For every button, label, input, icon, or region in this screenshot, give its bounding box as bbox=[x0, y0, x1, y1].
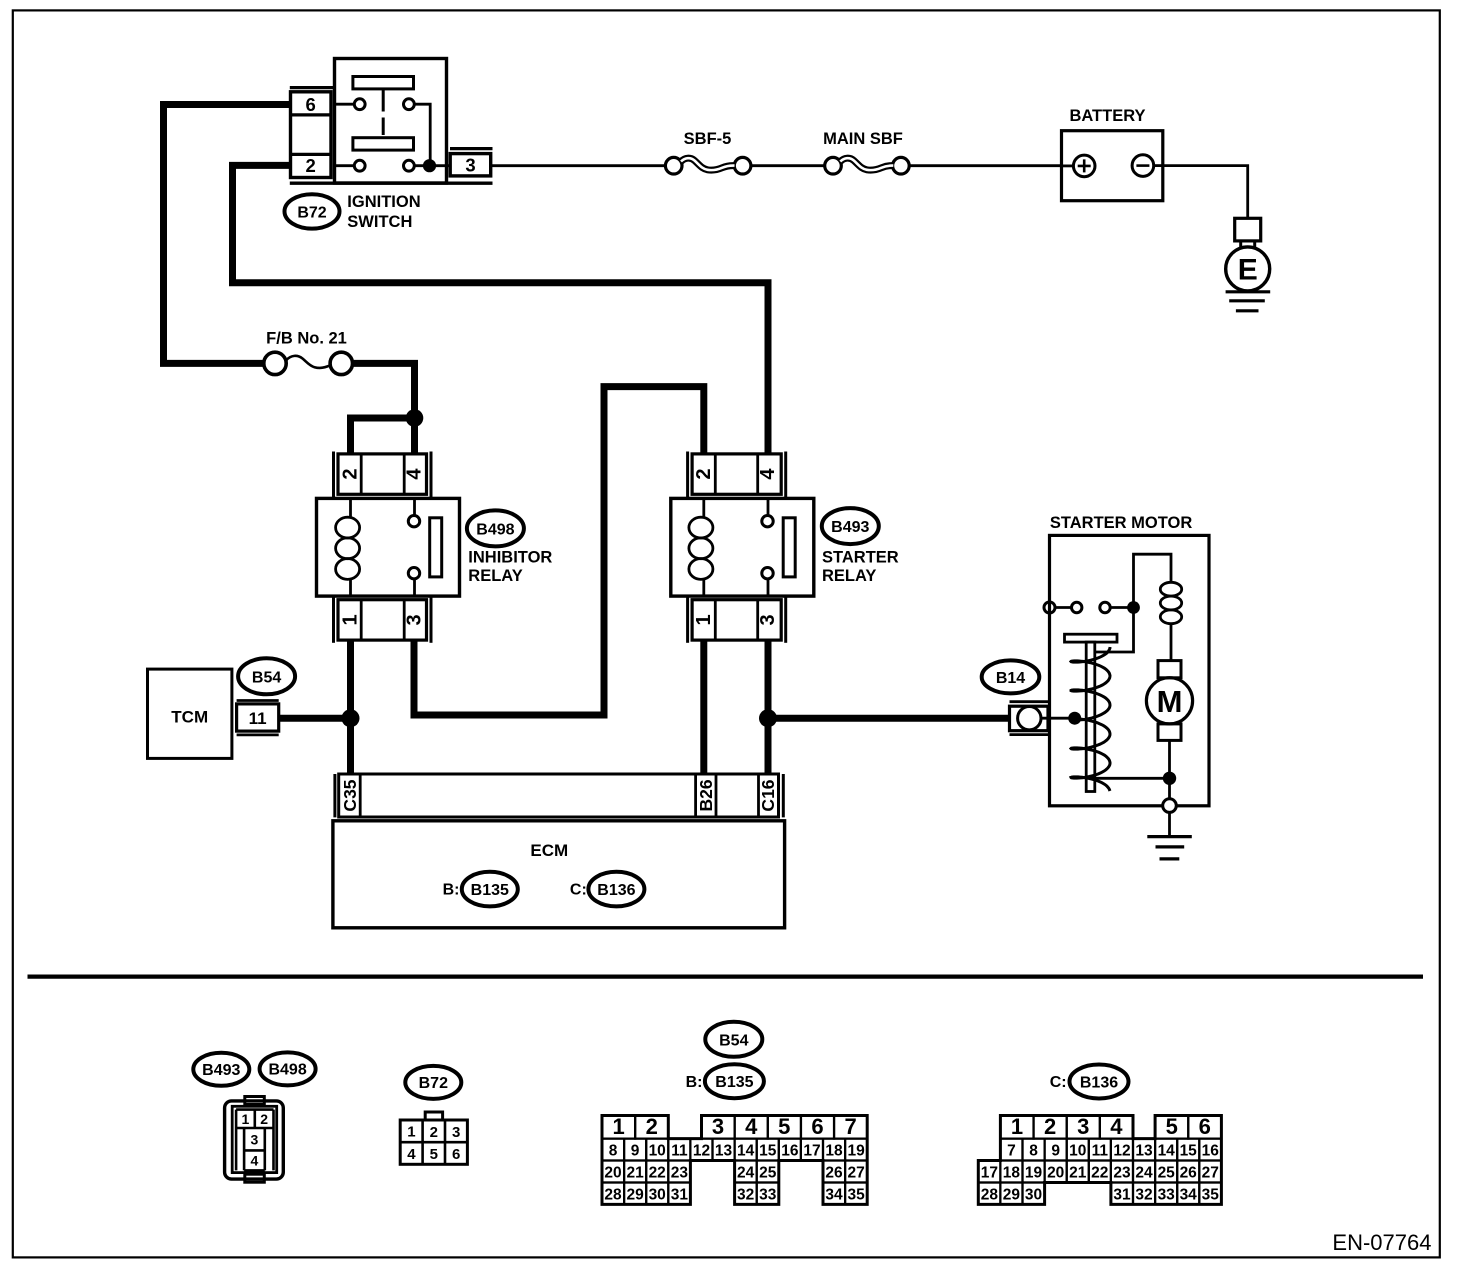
svg-text:STARTER MOTOR: STARTER MOTOR bbox=[1050, 514, 1192, 532]
svg-text:6: 6 bbox=[811, 1114, 823, 1139]
svg-text:29: 29 bbox=[626, 1187, 644, 1204]
svg-text:24: 24 bbox=[1135, 1165, 1153, 1182]
svg-text:23: 23 bbox=[671, 1165, 689, 1182]
svg-text:C:: C: bbox=[1050, 1074, 1067, 1091]
svg-text:B:: B: bbox=[443, 882, 460, 899]
svg-text:20: 20 bbox=[1047, 1165, 1064, 1182]
svg-text:9: 9 bbox=[631, 1143, 640, 1160]
svg-text:10: 10 bbox=[649, 1143, 666, 1160]
svg-text:8: 8 bbox=[1029, 1143, 1038, 1160]
solenoid plunger T-bar bbox=[1065, 634, 1118, 642]
wire: inhibitor relay pin 1 to junction / TCM / ECM C35 (thick) bbox=[279, 640, 351, 774]
svg-text:C:: C: bbox=[570, 882, 587, 899]
svg-text:2: 2 bbox=[340, 469, 362, 480]
svg-text:26: 26 bbox=[1180, 1165, 1198, 1182]
svg-text:25: 25 bbox=[1158, 1165, 1176, 1182]
svg-text:34: 34 bbox=[1180, 1187, 1198, 1204]
connector pin grid B135 cells bbox=[602, 1116, 867, 1205]
svg-text:15: 15 bbox=[759, 1143, 777, 1160]
svg-text:4: 4 bbox=[404, 468, 426, 480]
svg-text:13: 13 bbox=[1135, 1143, 1153, 1160]
svg-text:6: 6 bbox=[1199, 1114, 1211, 1139]
svg-text:28: 28 bbox=[981, 1187, 999, 1204]
svg-text:4: 4 bbox=[407, 1146, 416, 1163]
fusible link SBF-5 bbox=[665, 157, 750, 174]
svg-text:4: 4 bbox=[251, 1153, 259, 1169]
relay B498 bottom connector strip with pins 1,3 bbox=[334, 597, 432, 643]
ECM box bbox=[333, 821, 785, 928]
connector pin grid B136 pin numbers bbox=[981, 1114, 1220, 1203]
ignition switch output junction dot bbox=[423, 159, 436, 172]
svg-text:IGNITION: IGNITION bbox=[347, 193, 420, 211]
svg-text:7: 7 bbox=[844, 1114, 856, 1139]
svg-text:1: 1 bbox=[1011, 1114, 1023, 1139]
svg-text:EN-07764: EN-07764 bbox=[1332, 1230, 1431, 1255]
svg-text:ECM: ECM bbox=[530, 841, 568, 860]
svg-text:B493: B493 bbox=[202, 1062, 240, 1079]
svg-text:C16: C16 bbox=[758, 779, 778, 811]
svg-text:29: 29 bbox=[1003, 1187, 1021, 1204]
svg-text:3: 3 bbox=[452, 1124, 460, 1141]
starter motor contact junction dot bbox=[1127, 601, 1140, 614]
svg-text:E: E bbox=[1238, 254, 1258, 287]
svg-text:26: 26 bbox=[825, 1165, 843, 1182]
svg-text:9: 9 bbox=[1051, 1143, 1060, 1160]
svg-text:STARTER: STARTER bbox=[822, 549, 899, 567]
svg-text:B493: B493 bbox=[831, 519, 869, 536]
svg-text:SBF-5: SBF-5 bbox=[684, 130, 732, 148]
svg-text:11: 11 bbox=[1092, 1143, 1109, 1160]
TCM box bbox=[148, 669, 232, 758]
bottom section: label oval B72 bbox=[405, 1066, 461, 1099]
wire: inhibitor relay pin 3 to starter relay pin 2 (thick) bbox=[414, 387, 704, 715]
battery positive terminal bbox=[1062, 155, 1095, 177]
svg-text:22: 22 bbox=[1091, 1165, 1108, 1182]
svg-text:17: 17 bbox=[803, 1143, 820, 1160]
svg-text:3: 3 bbox=[465, 155, 475, 176]
wire: SBF-5 to MAIN SBF (thin) bbox=[751, 164, 825, 167]
svg-text:3: 3 bbox=[251, 1132, 259, 1148]
motor ground junction dot bbox=[1163, 772, 1176, 785]
svg-text:30: 30 bbox=[1025, 1187, 1042, 1204]
svg-text:4: 4 bbox=[1110, 1114, 1123, 1139]
junction dot at TCM branch bbox=[342, 709, 360, 727]
wire: field coil to motor (thin) bbox=[1170, 624, 1173, 661]
svg-text:F/B No. 21: F/B No. 21 bbox=[266, 329, 347, 347]
svg-text:RELAY: RELAY bbox=[822, 567, 876, 585]
svg-text:M: M bbox=[1157, 684, 1183, 719]
svg-text:1: 1 bbox=[242, 1111, 250, 1127]
wire: ignition switch pin 6 to F/B No.21 fuse (thick) bbox=[164, 105, 293, 364]
svg-text:16: 16 bbox=[781, 1143, 799, 1160]
svg-text:6: 6 bbox=[452, 1146, 460, 1163]
svg-text:2: 2 bbox=[260, 1111, 268, 1127]
svg-text:RELAY: RELAY bbox=[468, 567, 522, 585]
wire: motor to ground node (thin) bbox=[1091, 740, 1170, 798]
svg-text:18: 18 bbox=[825, 1143, 843, 1160]
svg-text:2: 2 bbox=[430, 1124, 438, 1141]
svg-text:B498: B498 bbox=[476, 521, 514, 538]
svg-text:20: 20 bbox=[604, 1165, 621, 1182]
relay B498 name label bbox=[468, 549, 552, 585]
starter motor box bbox=[1050, 535, 1210, 805]
svg-text:B135: B135 bbox=[715, 1074, 753, 1091]
ignition switch actuator dashed link bbox=[382, 89, 385, 135]
B14 connector box with brackets bbox=[1010, 702, 1049, 735]
bottom section: label oval B493 bbox=[193, 1053, 249, 1086]
svg-text:18: 18 bbox=[1003, 1165, 1021, 1182]
relay B493 starter top connector strip with pins 2,4 bbox=[688, 452, 786, 498]
svg-text:19: 19 bbox=[1025, 1165, 1043, 1182]
connector pin grid B136 cells bbox=[978, 1116, 1221, 1205]
svg-text:14: 14 bbox=[1158, 1143, 1176, 1160]
connector pin grid B135 outline bbox=[602, 1116, 867, 1205]
svg-text:15: 15 bbox=[1180, 1143, 1198, 1160]
ignition switch connector face B72 bbox=[400, 1112, 467, 1164]
svg-text:B54: B54 bbox=[252, 669, 281, 686]
junction dot at starter motor branch bbox=[759, 709, 777, 727]
label oval B54 bbox=[238, 658, 295, 694]
svg-text:24: 24 bbox=[737, 1165, 755, 1182]
svg-text:27: 27 bbox=[847, 1165, 864, 1182]
ignition switch contact terminals bbox=[335, 99, 451, 171]
fuse F/B No. 21 bbox=[264, 352, 353, 374]
svg-text:12: 12 bbox=[693, 1143, 710, 1160]
svg-text:B14: B14 bbox=[996, 670, 1025, 687]
ECM connector strip brackets bbox=[335, 774, 783, 817]
svg-text:32: 32 bbox=[737, 1187, 754, 1204]
svg-text:B:: B: bbox=[686, 1074, 703, 1091]
relay B493 switch contacts bbox=[762, 498, 795, 596]
relay B493 coil bbox=[689, 498, 713, 596]
label oval B72 bbox=[285, 194, 340, 228]
svg-text:16: 16 bbox=[1202, 1143, 1220, 1160]
svg-text:2: 2 bbox=[646, 1114, 658, 1139]
svg-text:14: 14 bbox=[737, 1143, 755, 1160]
svg-text:1: 1 bbox=[693, 614, 715, 625]
wire: contact to field coil (thin) bbox=[1134, 554, 1172, 607]
svg-text:31: 31 bbox=[671, 1187, 689, 1204]
svg-text:31: 31 bbox=[1113, 1187, 1131, 1204]
svg-text:MAIN SBF: MAIN SBF bbox=[823, 130, 903, 148]
label oval B14 bbox=[982, 660, 1040, 693]
svg-text:22: 22 bbox=[649, 1165, 666, 1182]
svg-text:11: 11 bbox=[249, 709, 267, 728]
svg-text:2: 2 bbox=[693, 469, 715, 480]
wire: battery negative to ground E (thin) bbox=[1163, 166, 1248, 219]
ignition switch connector box pins 6,2 bbox=[291, 92, 332, 178]
svg-text:21: 21 bbox=[1069, 1165, 1087, 1182]
motor M bbox=[1146, 678, 1192, 724]
solenoid return spring bbox=[1071, 647, 1110, 791]
svg-text:5: 5 bbox=[430, 1146, 438, 1163]
svg-text:1: 1 bbox=[340, 614, 362, 625]
svg-text:3: 3 bbox=[404, 614, 426, 625]
ignition switch bottom bracket line bbox=[290, 181, 493, 184]
relay B498 inhibitor top connector strip with pins 2,4 bbox=[334, 452, 432, 498]
svg-text:SWITCH: SWITCH bbox=[347, 213, 412, 231]
svg-text:32: 32 bbox=[1135, 1187, 1152, 1204]
svg-text:35: 35 bbox=[1202, 1187, 1220, 1204]
section divider line bbox=[28, 974, 1424, 978]
motor lower brush block bbox=[1158, 724, 1181, 741]
starter motor switch contacts bbox=[1044, 602, 1128, 613]
connector pin grid B136 outline bbox=[978, 1116, 1221, 1205]
wire: case terminal to ground (thin) bbox=[1168, 812, 1171, 835]
svg-text:21: 21 bbox=[626, 1165, 644, 1182]
svg-text:34: 34 bbox=[825, 1187, 843, 1204]
svg-text:25: 25 bbox=[759, 1165, 777, 1182]
svg-text:19: 19 bbox=[847, 1143, 865, 1160]
svg-text:B54: B54 bbox=[719, 1032, 748, 1049]
svg-text:BATTERY: BATTERY bbox=[1069, 107, 1145, 125]
wire: ignition switch pin 2 to starter relay pin 4 (thick) bbox=[233, 165, 769, 454]
svg-text:6: 6 bbox=[306, 94, 316, 115]
svg-text:B135: B135 bbox=[471, 882, 509, 899]
ignition switch top contact bar bbox=[353, 77, 414, 89]
svg-text:C35: C35 bbox=[340, 779, 360, 811]
wire: B14 to solenoid coil (thin) bbox=[1041, 717, 1069, 720]
svg-text:4: 4 bbox=[757, 468, 779, 480]
svg-text:30: 30 bbox=[649, 1187, 666, 1204]
ground symbol under starter motor bbox=[1147, 837, 1192, 859]
svg-text:10: 10 bbox=[1069, 1143, 1086, 1160]
svg-text:B26: B26 bbox=[696, 779, 716, 811]
svg-text:23: 23 bbox=[1113, 1165, 1131, 1182]
svg-text:7: 7 bbox=[1007, 1143, 1016, 1160]
ignition switch pin 3 bracket bbox=[450, 147, 493, 150]
battery negative terminal bbox=[1132, 155, 1163, 177]
svg-text:1: 1 bbox=[407, 1123, 415, 1140]
solenoid coil connection dot bbox=[1068, 712, 1081, 725]
relay B493 name label bbox=[822, 549, 899, 585]
svg-text:8: 8 bbox=[609, 1143, 618, 1160]
svg-text:11: 11 bbox=[671, 1143, 688, 1160]
svg-text:33: 33 bbox=[759, 1187, 777, 1204]
svg-text:5: 5 bbox=[1166, 1114, 1178, 1139]
ECM connector strip bbox=[339, 774, 779, 817]
svg-text:2: 2 bbox=[306, 155, 316, 176]
junction dot above inhibitor relay bbox=[406, 409, 424, 427]
svg-text:5: 5 bbox=[778, 1114, 790, 1139]
svg-text:3: 3 bbox=[1077, 1114, 1089, 1139]
svg-text:13: 13 bbox=[715, 1143, 733, 1160]
svg-text:28: 28 bbox=[604, 1187, 622, 1204]
ignition switch connector 6/2 bracket top bbox=[290, 86, 335, 89]
svg-text:3: 3 bbox=[712, 1114, 724, 1139]
svg-text:1: 1 bbox=[612, 1114, 624, 1139]
svg-text:B498: B498 bbox=[268, 1062, 306, 1079]
svg-text:INHIBITOR: INHIBITOR bbox=[468, 549, 552, 567]
svg-text:33: 33 bbox=[1158, 1187, 1176, 1204]
label oval B498 bbox=[467, 510, 524, 546]
relay B498 inhibitor body bbox=[317, 498, 460, 596]
svg-text:B72: B72 bbox=[419, 1075, 448, 1092]
svg-text:B136: B136 bbox=[597, 882, 635, 899]
svg-text:B136: B136 bbox=[1080, 1074, 1118, 1091]
label oval B493 bbox=[822, 508, 879, 544]
svg-text:12: 12 bbox=[1113, 1143, 1130, 1160]
solenoid plunger shaft bbox=[1086, 642, 1095, 791]
connector pin grid B135 pin numbers bbox=[604, 1114, 865, 1203]
svg-text:35: 35 bbox=[847, 1187, 865, 1204]
TCM pin 11 box with brackets bbox=[237, 701, 279, 735]
starter motor case terminal circle bbox=[1163, 799, 1177, 813]
wire: starter relay pin 3 to junction / B14 / ECM C16 (thick) bbox=[768, 640, 1010, 774]
wire: F/B No.21 fuse to inhibitor relay pins 2 and 4 (thick) bbox=[351, 363, 415, 454]
svg-text:4: 4 bbox=[745, 1114, 758, 1139]
svg-text:27: 27 bbox=[1202, 1165, 1219, 1182]
relay B498 switch contacts bbox=[408, 498, 441, 596]
wire: ignition pin 3 to SBF-5 (thin) bbox=[491, 164, 666, 167]
fusible link MAIN SBF bbox=[825, 157, 910, 174]
ground symbol lines bbox=[1226, 292, 1271, 311]
relay B498 coil bbox=[336, 498, 360, 596]
ignition switch pin 3 box bbox=[450, 154, 491, 176]
solenoid plunger link wire bbox=[1095, 608, 1134, 653]
wire: starter relay pin 1 to ECM B26 (thick) bbox=[700, 640, 707, 774]
ignition switch bottom contact bar bbox=[353, 138, 414, 150]
relay B493 bottom connector strip with pins 1,3 bbox=[688, 597, 786, 643]
ignition switch body B72 bbox=[335, 59, 447, 184]
battery box bbox=[1062, 131, 1163, 201]
relay B493 starter body bbox=[671, 498, 814, 596]
wire: MAIN SBF to battery (thin) bbox=[909, 164, 1061, 167]
relay connector face B493/B498 bbox=[225, 1097, 284, 1183]
svg-text:17: 17 bbox=[981, 1165, 998, 1182]
bottom section: label oval B54 bbox=[705, 1022, 762, 1057]
B14 terminal circle bbox=[1018, 707, 1041, 730]
svg-text:B72: B72 bbox=[297, 204, 326, 221]
ground connector square bbox=[1235, 218, 1261, 241]
field coil bbox=[1160, 582, 1181, 623]
svg-text:3: 3 bbox=[757, 614, 779, 625]
bottom section: label oval B498 bbox=[260, 1052, 316, 1085]
svg-text:TCM: TCM bbox=[171, 708, 208, 727]
ground circle E bbox=[1226, 247, 1270, 291]
svg-text:2: 2 bbox=[1044, 1114, 1056, 1139]
motor upper brush block bbox=[1158, 661, 1181, 678]
